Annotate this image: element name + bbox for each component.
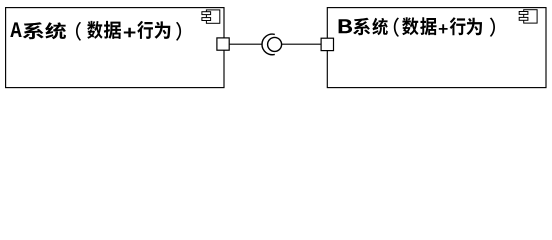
component icon A bbox=[202, 10, 220, 23]
label "B系统（数据+行为）" bbox=[339, 17, 495, 36]
port square on B bbox=[321, 38, 333, 50]
wire from port A to socket bbox=[230, 43, 263, 45]
provided interface ball bbox=[268, 37, 282, 51]
component B box bbox=[327, 8, 546, 88]
required interface socket bbox=[262, 34, 275, 55]
component icon B bbox=[519, 10, 537, 23]
component A box bbox=[6, 8, 224, 88]
label "A系统（数据+行为）" bbox=[10, 21, 181, 41]
wire from ball to port B bbox=[282, 43, 322, 45]
port square on A bbox=[217, 38, 229, 50]
